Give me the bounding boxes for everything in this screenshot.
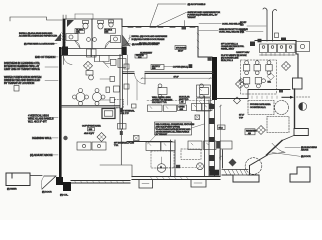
- bottom wall east end: [220, 150, 223, 177]
- future circle dashed: [275, 101, 289, 115]
- door from corridor to hall: [122, 35, 130, 46]
- work tables pair: [77, 142, 106, 150]
- urinal screen triangle left room: [67, 20, 74, 27]
- diamond at chase bottom: [234, 97, 241, 104]
- dark block chase foot: [210, 170, 220, 176]
- SE corner box: [294, 129, 308, 136]
- diamond copy area: [97, 133, 106, 142]
- dining tables row2: [240, 78, 266, 88]
- right wall x198: [197, 27, 199, 58]
- dim texts right: [239, 115, 244, 120]
- svg-text:(E) ROOF PANELS: (E) ROOF PANELS: [188, 3, 206, 6]
- diamond SE edge: [229, 159, 237, 167]
- svg-text:45.6 SQFT: 45.6 SQFT: [84, 133, 95, 135]
- svg-text:25'-0": 25'-0": [178, 51, 183, 53]
- east wall below pilaster: [294, 89, 296, 128]
- label E door SW: [42, 192, 52, 194]
- svg-text:CANOPY ABV: CANOPY ABV: [236, 51, 250, 54]
- restroom left wall thick edge: [63, 19, 66, 48]
- svg-text:(E) WALL TO REMAIN: (E) WALL TO REMAIN: [139, 42, 160, 45]
- leader to roof panels: [150, 4, 186, 27]
- dashed storage rect west: [151, 151, 174, 168]
- boxed label left restroom: [75, 29, 85, 34]
- lower tables row: [146, 141, 232, 151]
- label E wall to remain: [139, 42, 160, 45]
- mop sink box: [118, 59, 126, 68]
- left room cabinet: [86, 71, 93, 80]
- svg-text:TYP: TYP: [240, 32, 245, 34]
- svg-text:(N) COL.: (N) COL.: [60, 195, 69, 197]
- small box on wall y71: [189, 64, 193, 68]
- mid wall y71: [123, 72, 214, 84]
- bottom wall main segment: [132, 177, 220, 189]
- label demising wall: [32, 136, 58, 140]
- label install ADA grab bars: [19, 32, 58, 38]
- toilet left restroom: [83, 21, 89, 30]
- canopy dashed outline: [241, 60, 277, 94]
- closet below corridor: [94, 56, 109, 62]
- partition x170 lower: [171, 140, 176, 176]
- SE detached footprint: [290, 167, 310, 182]
- label align: [140, 52, 153, 55]
- interval box on partition: [121, 104, 137, 115]
- small box near circle: [176, 165, 180, 168]
- future area dashed rect: [248, 101, 274, 115]
- modular note: [179, 95, 190, 101]
- label 4ft vertical high: [28, 113, 58, 123]
- svg-text:AS NECESSARY. ALL REMOVABLE: AS NECESSARY. ALL REMOVABLE: [156, 131, 190, 134]
- dashed storage rect: [181, 149, 201, 160]
- wall mid left room: [61, 106, 120, 108]
- door zone line: [136, 80, 138, 100]
- east door wall diagonal: [267, 135, 295, 155]
- thick dark wall segment: [212, 57, 217, 100]
- svg-text:LIMIT LINE OF TENANT SPACE: LIMIT LINE OF TENANT SPACE: [4, 67, 40, 71]
- svg-text:STORAGE: STORAGE: [176, 46, 187, 49]
- SW door: [41, 176, 56, 189]
- label gate with panic hardware: [156, 11, 221, 27]
- label E door SE: [272, 153, 311, 159]
- kit diamond: [267, 73, 274, 84]
- svg-text:8FT LOW WALL &: 8FT LOW WALL &: [221, 43, 238, 46]
- SE wall diagonal: [250, 155, 268, 175]
- bottom-left protrusion: [6, 173, 30, 186]
- demising wall left thick: [59, 47, 62, 177]
- diamond symbol dining: [282, 62, 291, 71]
- svg-text:TYP: TYP: [239, 118, 244, 120]
- svg-text:37'-2": 37'-2": [239, 115, 244, 117]
- svg-text:MODULAR: MODULAR: [179, 95, 190, 98]
- svg-text:GATE W/ PANIC HARDWARE FOR: GATE W/ PANIC HARDWARE FOR: [187, 11, 220, 14]
- lavatory circles at divider: [87, 38, 91, 42]
- keynote arrow at wall: [282, 96, 291, 98]
- dimension line room: [141, 77, 213, 79]
- restroom block outer walls: [63, 19, 122, 48]
- register box: [245, 129, 257, 135]
- kitchen counter labels left: [240, 22, 266, 27]
- dining south boundary: [217, 90, 290, 99]
- corridor west door leaf: [64, 56, 73, 65]
- sink counter right restroom: [111, 36, 121, 43]
- svg-text:W.C. 48 X 9" 4FT: W.C. 48 X 9" 4FT: [28, 119, 47, 123]
- svg-text:NIC: NIC: [240, 25, 244, 27]
- boxes on partition upper: [106, 87, 110, 93]
- copy print area label: [82, 125, 101, 135]
- svg-text:ABOVE: ABOVE: [301, 149, 309, 152]
- label install N door: [129, 35, 168, 41]
- dining tables row1: [243, 61, 272, 75]
- kitchen right rect: [296, 42, 310, 52]
- svg-text:CHAINLINK FENCE PNL: CHAINLINK FENCE PNL: [221, 45, 245, 48]
- svg-text:AND EQUIPMENT (FF&E): AND EQUIPMENT (FF&E): [156, 125, 181, 128]
- legend square: [14, 86, 19, 92]
- label low wall chainlink: [221, 43, 245, 51]
- svg-text:BY TENANT AT LOCATION: BY TENANT AT LOCATION: [4, 81, 34, 85]
- center dashed line with panels: [124, 55, 129, 105]
- svg-text:IN (E) RELOCATED DOOR FRAME: IN (E) RELOCATED DOOR FRAME: [132, 38, 165, 41]
- dark box dining south: [279, 89, 283, 93]
- boxed label right restroom: [105, 29, 116, 34]
- restroom divider wall: [91, 19, 93, 48]
- jog wall to chase: [198, 56, 212, 58]
- hall work table A: [158, 84, 167, 98]
- small box open office: [195, 115, 200, 120]
- label at interval: [114, 142, 134, 148]
- label end of trench: [35, 55, 58, 59]
- svg-text:PNL TYP: PNL TYP: [121, 113, 130, 115]
- walkway tick marks: [252, 96, 277, 99]
- wall outlet circle: [63, 136, 67, 140]
- dashed column circle: [245, 158, 262, 175]
- dashed rect above copier: [115, 100, 124, 109]
- svg-text:REGISTER: REGISTER: [246, 130, 257, 132]
- stage line: [100, 165, 132, 177]
- svg-text:4FT INTERVAL: 4FT INTERVAL: [121, 109, 136, 112]
- small box on wall: [208, 57, 212, 61]
- wall detail note: [152, 96, 173, 104]
- svg-text:(E) FIRE RISER LOCATION AND: (E) FIRE RISER LOCATION AND: [24, 43, 55, 46]
- label adjust above: [30, 153, 58, 157]
- top wall existing y26: [122, 19, 198, 27]
- relocate fixtures note: [148, 122, 205, 144]
- svg-text:END OF TRENCH: END OF TRENCH: [35, 55, 55, 59]
- svg-text:COPIER (WALL): COPIER (WALL): [173, 66, 189, 69]
- column circle at chase: [197, 163, 204, 170]
- dashed line east of wall: [297, 96, 311, 98]
- small x-box below copy: [134, 136, 140, 141]
- svg-text:INSTALL (N) DOOR AND HARDWARE: INSTALL (N) DOOR AND HARDWARE: [132, 35, 168, 38]
- svg-text:PROTECT TYP.: PROTECT TYP.: [152, 102, 167, 104]
- svg-text:ELEV, PNL 2: ELEV, PNL 2: [221, 60, 234, 62]
- SW column blocks: [56, 177, 71, 191]
- label conc pad below: [199, 22, 242, 25]
- copier dark rect: [102, 109, 115, 119]
- svg-text:TENANT: TENANT: [187, 16, 196, 19]
- dining east wall: [296, 41, 298, 79]
- AB box: [180, 99, 186, 104]
- svg-text:FUTURE CAFE AREA: FUTURE CAFE AREA: [250, 103, 271, 106]
- label partners in learning: [4, 61, 58, 71]
- svg-text:BY TENANT: BY TENANT: [156, 133, 168, 136]
- SE step outline: [222, 175, 259, 182]
- walkway strip: [222, 170, 248, 176]
- keynote circle: [299, 103, 307, 111]
- dim box: [218, 125, 226, 130]
- svg-text:(E) RISER: (E) RISER: [7, 189, 17, 191]
- closet door leaf: [103, 62, 111, 68]
- svg-text:(E) BLEACHERS: (E) BLEACHERS: [301, 146, 317, 149]
- drinking fountains: [87, 49, 97, 57]
- label verify new work: [221, 55, 247, 62]
- dashed work line: [147, 100, 213, 102]
- label E door: [127, 43, 159, 46]
- corridor band below restrooms: [62, 47, 127, 56]
- cabinets along hall east: [197, 85, 211, 111]
- range units row: [260, 44, 268, 53]
- toilet right restroom: [98, 21, 104, 30]
- SE door leaf and arc: [267, 143, 285, 154]
- left room diamond: [84, 61, 93, 70]
- sink counter left restroom: [66, 34, 78, 41]
- east wall pilaster box: [293, 78, 303, 89]
- svg-text:INSTALL (N) ADA GRAB BARS AND: INSTALL (N) ADA GRAB BARS AND: [19, 32, 53, 35]
- future square dashed: [267, 117, 289, 133]
- hatch ticks on top wall: [128, 26, 195, 28]
- hall work table B: [200, 84, 209, 98]
- circle symbol A: [157, 157, 166, 172]
- diamond register: [257, 126, 266, 135]
- svg-text:TO ACCOMMODATE (N) WORK AND: TO ACCOMMODATE (N) WORK AND: [156, 128, 191, 131]
- grab-bar note triangle left of block: [55, 33, 62, 41]
- wall hatch at riser: [62, 33, 66, 43]
- svg-text:COPY/PRINT AREA: COPY/PRINT AREA: [82, 125, 101, 128]
- bottom wall west segment: [71, 181, 130, 184]
- svg-text:PANEL, SECT: PANEL, SECT: [221, 48, 235, 51]
- svg-text:TYP.: TYP.: [114, 145, 119, 147]
- dimension line vertical: [219, 105, 222, 160]
- equipment box right of closet: [111, 59, 117, 65]
- chase wall below: [205, 96, 215, 176]
- diamond near chase: [236, 80, 245, 89]
- hall lower wall y141: [127, 141, 172, 143]
- svg-text:(N) ADJUST ABOVE: (N) ADJUST ABOVE: [30, 153, 53, 157]
- supply wall box: [151, 65, 188, 71]
- svg-text:37'-0": 37'-0": [174, 77, 179, 79]
- dashed line y172: [166, 167, 196, 169]
- open boxed label: [178, 105, 187, 111]
- svg-text:KIT.: KIT.: [268, 82, 272, 84]
- wall top-left exterior: [10, 17, 62, 21]
- svg-text:RELOCATE ALL FURNITURE, FIXTUR: RELOCATE ALL FURNITURE, FIXTURES: [156, 123, 195, 126]
- urinal right room: [109, 20, 114, 27]
- storage room boxed label: [175, 46, 187, 53]
- svg-text:(E) DOOR: (E) DOOR: [42, 192, 52, 194]
- label fire riser: [24, 43, 57, 46]
- office room box: [135, 54, 147, 59]
- label bleachers above: [285, 146, 317, 152]
- hall counters row mid: [148, 104, 213, 112]
- door leaf right restroom: [105, 41, 111, 49]
- partition x121: [100, 55, 126, 165]
- door leaf left restroom: [75, 41, 81, 49]
- svg-text:(E) DOOR: (E) DOOR: [301, 156, 311, 158]
- label water purification: [4, 75, 58, 85]
- kitchen counter block: [250, 33, 295, 56]
- dimension line above restrooms: [75, 14, 93, 19]
- round tables left pair: [73, 89, 106, 106]
- bottom wall to door: [30, 175, 42, 177]
- pole gate symbol: [263, 8, 277, 41]
- svg-text:DEMISING WALL: DEMISING WALL: [32, 136, 52, 140]
- svg-text:COUNTER N.I.C.: COUNTER N.I.C.: [250, 107, 266, 109]
- label area in front: [199, 28, 248, 34]
